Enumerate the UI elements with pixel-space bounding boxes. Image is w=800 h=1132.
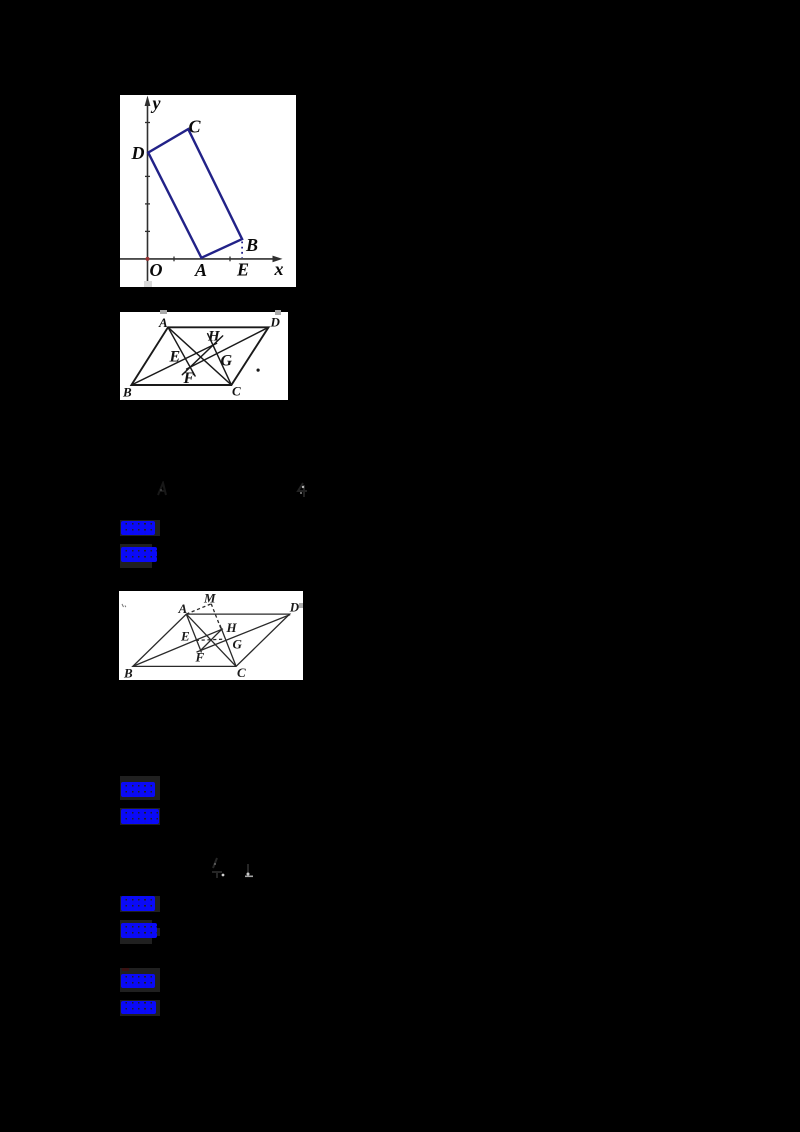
svg-text:H: H: [226, 620, 238, 635]
svg-text:B: B: [245, 235, 258, 255]
svg-text:E: E: [180, 629, 190, 644]
svg-text:G: G: [233, 637, 243, 652]
svg-text:B: B: [123, 666, 133, 681]
svg-text:A: A: [194, 260, 207, 280]
svg-text:G: G: [221, 353, 233, 370]
svg-text:O: O: [150, 260, 163, 280]
svg-text:E: E: [236, 260, 249, 280]
svg-text:A: A: [158, 315, 168, 330]
svg-text:D: D: [270, 315, 281, 330]
svg-text:x: x: [274, 259, 284, 279]
svg-text:M: M: [203, 591, 216, 605]
svg-text:E: E: [169, 349, 181, 366]
svg-text:D: D: [131, 143, 145, 163]
svg-text:C: C: [189, 117, 202, 137]
svg-text:C: C: [232, 384, 241, 399]
svg-text:A: A: [178, 601, 188, 616]
svg-text:y: y: [151, 95, 162, 113]
svg-text:F: F: [183, 370, 195, 387]
svg-text:H: H: [207, 329, 221, 345]
svg-text:F: F: [195, 650, 205, 665]
svg-text:B: B: [122, 385, 132, 400]
svg-text:C: C: [237, 665, 246, 680]
